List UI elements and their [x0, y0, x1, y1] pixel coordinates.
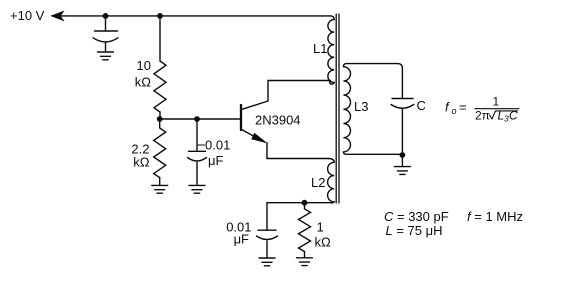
+10 V supply label [10, 8, 45, 23]
wire: collector to transformer L1 [268, 80, 331, 82]
wire: +10V rail [52, 15, 331, 17]
svg-text:f: f [445, 100, 450, 115]
svg-text:C = 330 pF: C = 330 pF [384, 209, 449, 224]
resistor 1 kOhm [299, 203, 311, 252]
resistor 2.2 kOhm [154, 119, 166, 178]
ground (under 2.2k resistor) [152, 185, 168, 193]
wire: 1k resistor to ground [304, 252, 306, 258]
arrowhead on supply rail [52, 11, 64, 20]
transformer core [336, 14, 339, 203]
ground (under emitter capacitor) [259, 258, 275, 266]
capacitor C (tank) [392, 98, 413, 100]
node: base node left junction [157, 116, 163, 122]
node: emitter network junction [302, 200, 308, 206]
svg-text:kΩ: kΩ [135, 75, 152, 90]
node: rail junction at bypass capacitor [103, 13, 109, 19]
transformer winding L1 [328, 16, 334, 84]
resistor 10 kOhm [154, 61, 166, 112]
wire: L3 top to capacitor C [398, 64, 403, 99]
transistor Q1 2N3904 base bar [240, 105, 242, 130]
component values text [384, 209, 523, 238]
wire: L2 bottom to 0.01uF emitter capacitor [266, 203, 268, 231]
svg-text:L1: L1 [313, 41, 327, 56]
capacitor 0.01 uF (base bypass) [189, 150, 206, 152]
wire: emitter capacitor to ground [266, 241, 268, 258]
svg-text:μF: μF [234, 232, 249, 247]
wire: rail to bypass capacitor [105, 16, 107, 31]
svg-text:o: o [452, 106, 457, 116]
svg-text:0.01: 0.01 [205, 138, 230, 153]
svg-text:L = 75 μH: L = 75 μH [386, 223, 443, 238]
radical sign of formula [490, 111, 518, 119]
transformer winding L3 [343, 64, 402, 155]
node: rail junction at 10k branch [157, 13, 163, 19]
node: base node capacitor junction [194, 116, 200, 122]
svg-text:2π: 2π [475, 109, 490, 123]
wire: emitter to transformer L2 [267, 158, 329, 160]
node: tank ground junction [400, 152, 406, 158]
svg-text:+10 V: +10 V [10, 8, 45, 23]
svg-text:2N3904: 2N3904 [255, 113, 301, 128]
transistor emitter lead with arrow [242, 130, 262, 141]
svg-text:=: = [459, 100, 467, 115]
ground (under bypass capacitor) [98, 52, 114, 60]
wire: tank node to ground [401, 155, 403, 167]
svg-text:1: 1 [317, 220, 324, 235]
svg-text:kΩ: kΩ [133, 155, 150, 170]
svg-text:10: 10 [137, 58, 151, 73]
wire: bypass capacitor to ground [105, 42, 107, 52]
wire: capacitor to ground [196, 163, 198, 186]
wire: capacitor C to tank node [401, 110, 403, 156]
transformer winding L2 [267, 159, 334, 203]
ground (under 0.01uF base capacitor) [189, 185, 205, 193]
wire: base node horizontal [160, 118, 241, 120]
svg-text:f = 1 MHz: f = 1 MHz [467, 209, 523, 224]
capacitor 0.01 uF (emitter) [258, 229, 276, 231]
wire: resistor 10k to base node [159, 112, 161, 119]
leader tick to 0.01 label [198, 144, 205, 146]
capacitor (bypass, unlabeled) [95, 30, 118, 32]
svg-text:μF: μF [208, 153, 223, 168]
svg-text:kΩ: kΩ [315, 235, 332, 250]
wire: rail to resistor R1 [159, 16, 161, 61]
svg-text:C: C [417, 98, 426, 113]
svg-text:1: 1 [493, 95, 500, 109]
ground (tank circuit) [394, 167, 410, 175]
wire: base node to capacitor 0.01uF [196, 119, 198, 151]
svg-text:L3: L3 [354, 99, 368, 114]
svg-text:L2: L2 [311, 175, 325, 190]
formula f_o = 1/(2 pi sqrt(L3 C)) [445, 95, 518, 124]
ground (under 1k resistor) [297, 258, 313, 266]
transistor collector lead [242, 81, 268, 110]
wire: 2.2k to ground [159, 178, 161, 186]
